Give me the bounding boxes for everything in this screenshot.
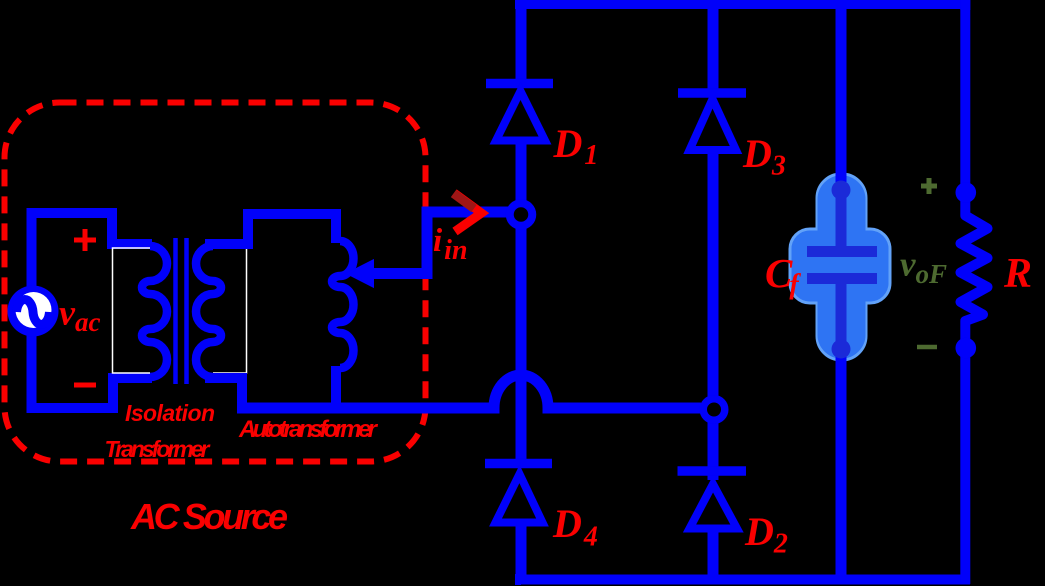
diode D3 [690,99,737,150]
node Cf top [832,181,851,200]
diode D2 [690,484,738,529]
wire R branch bottom [960,348,970,584]
wire secondary bottom lead [205,378,242,404]
svg-text:Isolation: Isolation [125,400,215,426]
diode D1 [496,91,545,141]
wire source top lead [32,213,153,290]
diode D4 cathode bar [485,459,552,469]
isolation transformer secondary white frame [213,248,247,373]
resistor R [961,195,988,348]
node iin junction (open) [510,203,533,226]
wire tap to iin node [371,212,512,274]
isolation transformer core [176,238,187,384]
current arrow iin (dark upper arm) [454,194,475,209]
wire top rail [515,0,970,10]
capacitor Cf symbol (plates and leads) [807,184,877,352]
wire source bottom lead [32,332,153,408]
isolation transformer primary white frame [113,248,151,373]
current arrow iin (bright chevron) [454,193,482,232]
wire autotransformer bottom lead [331,366,341,404]
wire secondary top to autotransformer [205,214,336,244]
isolation transformer primary winding [142,246,167,377]
node R bottom [956,338,977,359]
autotransformer winding [332,241,354,368]
svg-text:AC Source: AC Source [130,496,288,537]
diode D2 cathode bar [678,466,747,476]
isolation transformer secondary winding [196,246,221,377]
AC voltage source vac [8,286,59,337]
svg-text:Transformer: Transformer [105,436,211,462]
node bridge midpoint (open) [703,399,725,421]
label + (output polarity) [921,178,937,194]
diode D4 [496,474,543,523]
wire bottom long run with hop [237,375,701,408]
wire D3 branch [708,0,719,584]
diode D3 cathode bar [678,88,746,98]
svg-text:R: R [1003,251,1032,297]
node Cf bottom [832,340,851,359]
label - (output polarity) [917,345,937,350]
label + (source polarity) [74,229,96,251]
node R top [956,182,977,203]
svg-text:Autotransformer: Autotransformer [238,416,379,443]
wire R branch top [960,0,970,195]
autotransformer tap arrow [348,261,374,287]
label - (source polarity) [74,383,96,388]
wire D1 branch [515,0,521,584]
wire bottom rail [515,575,970,585]
wire Cf branch [836,0,847,584]
diode D1 cathode bar [486,79,553,89]
capacitor Cf glow [790,174,890,360]
AC source dashed boundary box [5,103,426,462]
